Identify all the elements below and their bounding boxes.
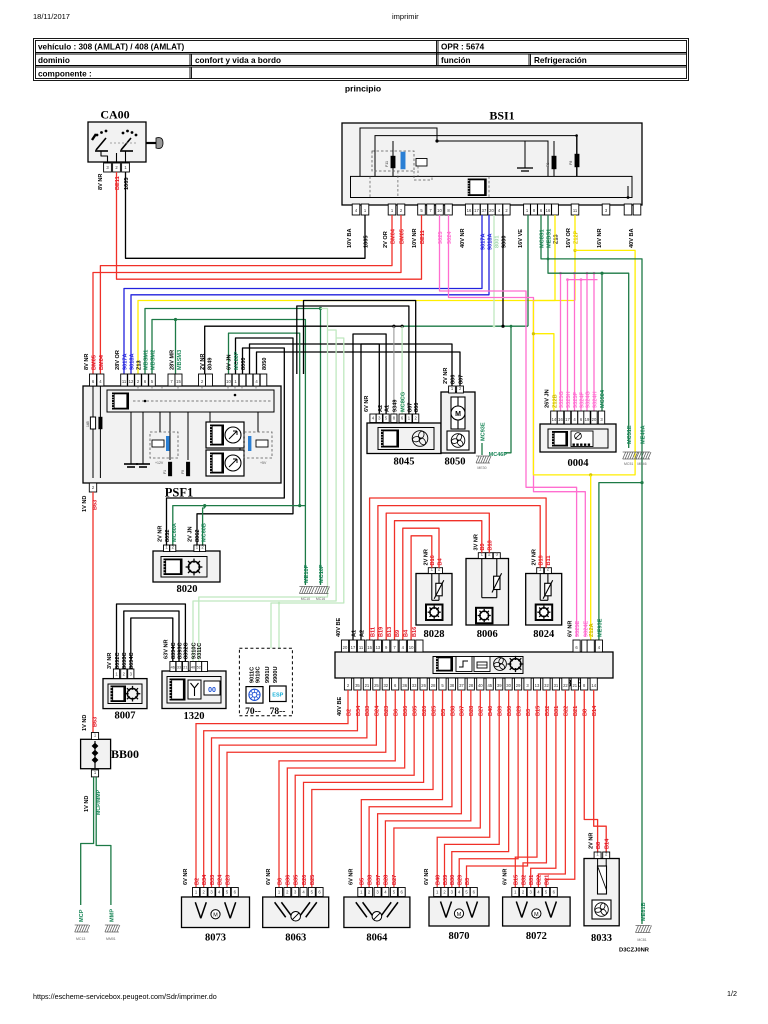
svg-text:8394C: 8394C bbox=[171, 643, 177, 659]
8064 symbol bbox=[356, 902, 398, 917]
wire 8020 green pair to MBSM2 net bbox=[173, 506, 306, 545]
8033 pins bbox=[594, 852, 601, 859]
8006 gear box bbox=[476, 608, 493, 624]
BSI1 internal dashed links bbox=[370, 166, 489, 198]
svg-text:ME10P: ME10P bbox=[304, 564, 310, 583]
wire B8 red to 8033 bbox=[584, 690, 597, 852]
svg-text:6V NR: 6V NR bbox=[266, 869, 272, 885]
svg-text:función: función bbox=[441, 56, 471, 65]
wire BM05 red BSI1 to PSF1 bbox=[93, 215, 401, 374]
svg-text:componente :: componente : bbox=[38, 70, 92, 79]
wire MC8S1 green BSI1 right main run to ME81B bbox=[541, 215, 642, 924]
component 8007 box bbox=[103, 679, 147, 709]
BSI1 internal fuse F2 bbox=[552, 156, 556, 169]
svg-text:B28: B28 bbox=[469, 706, 475, 716]
svg-text:MC46P: MC46P bbox=[489, 452, 508, 458]
svg-text:20: 20 bbox=[343, 645, 348, 650]
svg-text:31: 31 bbox=[554, 683, 559, 688]
component 8045 box bbox=[367, 423, 441, 454]
svg-text:B35: B35 bbox=[412, 706, 418, 716]
component CA00 ignition switch box bbox=[88, 122, 146, 162]
svg-text:10V NR: 10V NR bbox=[412, 228, 418, 248]
8064 pins bbox=[358, 888, 365, 897]
1320 pins bbox=[170, 662, 176, 672]
svg-text:imprimir: imprimir bbox=[392, 12, 419, 21]
wire B4 red 8080 to 8028 pin2 bbox=[403, 528, 439, 640]
svg-text:2V NR: 2V NR bbox=[200, 354, 206, 370]
svg-text:10: 10 bbox=[437, 208, 442, 213]
wire MBSM1 green net to MC16P ground bbox=[145, 309, 321, 586]
svg-text:B33: B33 bbox=[210, 875, 216, 885]
svg-text:15: 15 bbox=[367, 645, 372, 650]
svg-text:8020: 8020 bbox=[177, 584, 198, 595]
svg-text:40V BA: 40V BA bbox=[629, 228, 635, 248]
wire 9024 pink BSI1 down to 8080 9324E bbox=[449, 215, 586, 637]
8050 MC93E ground bbox=[481, 443, 483, 455]
component 8073 box bbox=[182, 897, 250, 928]
svg-text:32: 32 bbox=[383, 683, 388, 688]
svg-text:8692C: 8692C bbox=[115, 653, 121, 669]
svg-text:B13: B13 bbox=[387, 627, 393, 637]
svg-text:Z12A: Z12A bbox=[589, 623, 595, 637]
wire 807 black PSF1 to 8050 component bbox=[257, 352, 461, 386]
svg-text:9311C: 9311C bbox=[197, 643, 203, 659]
svg-text:B30: B30 bbox=[450, 875, 456, 885]
svg-text:40: 40 bbox=[478, 683, 483, 688]
svg-text:M: M bbox=[457, 912, 462, 918]
svg-text:806: 806 bbox=[451, 375, 457, 384]
svg-text:B39: B39 bbox=[443, 875, 449, 885]
svg-text:MBSM1: MBSM1 bbox=[144, 350, 150, 370]
wire B14 red to 8033 bbox=[594, 690, 607, 852]
svg-text:17: 17 bbox=[565, 417, 570, 422]
svg-text:B13: B13 bbox=[488, 540, 494, 550]
BB00 battery symbol bbox=[94, 741, 96, 768]
svg-text:20: 20 bbox=[489, 208, 494, 213]
8028 pins bbox=[428, 568, 435, 574]
wire loops 8007 to 1320 bbox=[117, 604, 186, 669]
svg-text:MC10: MC10 bbox=[301, 597, 310, 601]
svg-text:B30: B30 bbox=[507, 706, 513, 716]
svg-text:8006: 8006 bbox=[477, 629, 498, 640]
svg-text:16: 16 bbox=[546, 208, 551, 213]
svg-text:9901U: 9901U bbox=[265, 667, 271, 683]
svg-text:16: 16 bbox=[558, 417, 563, 422]
svg-text:22: 22 bbox=[563, 683, 568, 688]
8050 pins bbox=[449, 386, 456, 393]
wire 9017A blue BSI1 to PSF1 bbox=[124, 215, 482, 374]
svg-text:principio: principio bbox=[345, 84, 381, 94]
BSI1 internal wires bbox=[360, 128, 628, 198]
svg-text:13: 13 bbox=[376, 645, 381, 650]
8045 pins bbox=[370, 414, 376, 423]
svg-text:18/11/2017: 18/11/2017 bbox=[33, 12, 70, 21]
svg-text:B63: B63 bbox=[93, 717, 99, 727]
svg-text:B3: B3 bbox=[465, 878, 471, 885]
PSF1 left fuses bbox=[92, 386, 94, 417]
svg-text:6V NR: 6V NR bbox=[424, 869, 430, 885]
svg-text:M: M bbox=[455, 411, 461, 418]
svg-text:B16: B16 bbox=[412, 627, 418, 637]
component BB00 box bbox=[81, 739, 111, 768]
svg-text:MMP: MMP bbox=[109, 909, 115, 922]
svg-text:MC60A: MC60A bbox=[172, 523, 178, 542]
8020 pins bbox=[164, 545, 170, 552]
wire MC8CG pale link to 8045 bbox=[401, 326, 403, 414]
component 8070 box bbox=[429, 897, 489, 926]
svg-text:B35: B35 bbox=[294, 875, 300, 885]
wire Z12P yellow BSI1 big loop to 0004 and 8080 bbox=[533, 215, 635, 475]
svg-text:B63: B63 bbox=[93, 500, 99, 510]
wire MBSM2 green net to ME10P ground bbox=[152, 320, 305, 586]
PSF1 internal fuses bottom bbox=[168, 462, 172, 476]
svg-text:26: 26 bbox=[421, 683, 426, 688]
svg-text:33: 33 bbox=[177, 666, 181, 670]
wire 1065 black CA00 to BSI1 bbox=[126, 172, 366, 258]
svg-text:ME46A: ME46A bbox=[641, 425, 647, 444]
svg-text:8024: 8024 bbox=[533, 629, 555, 640]
svg-text:A2: A2 bbox=[378, 405, 384, 412]
component PSF1 box bbox=[83, 386, 281, 483]
svg-text:9349: 9349 bbox=[392, 400, 398, 412]
8050 motor symbol bbox=[451, 397, 465, 429]
wire Z12P branch to PSF1 yellow run bbox=[574, 250, 576, 300]
8063 pins bbox=[276, 888, 283, 897]
svg-text:866: 866 bbox=[414, 403, 420, 412]
svg-text:26V JN: 26V JN bbox=[545, 389, 551, 408]
wire B16 red 8080 to 8028 pin1 bbox=[411, 536, 432, 640]
svg-text:B39: B39 bbox=[498, 706, 504, 716]
svg-text:8050: 8050 bbox=[445, 457, 466, 468]
component 8064 box bbox=[344, 897, 410, 928]
component BSI1 box bbox=[342, 123, 642, 205]
svg-text:19: 19 bbox=[585, 417, 590, 422]
svg-text:B36: B36 bbox=[286, 875, 292, 885]
component 8063 box bbox=[263, 897, 329, 928]
svg-text:9900U: 9900U bbox=[273, 667, 279, 683]
yellow branch into 0004 Z12B pin bbox=[533, 334, 554, 411]
wire 8001 pale green stub from BSI1 bbox=[493, 215, 495, 326]
svg-text:MC60B: MC60B bbox=[202, 523, 208, 542]
svg-text:B6: B6 bbox=[394, 709, 400, 716]
svg-text:B22: B22 bbox=[564, 706, 570, 716]
svg-text:B6: B6 bbox=[277, 878, 283, 885]
svg-text:9010C: 9010C bbox=[256, 667, 262, 683]
svg-text:9018A: 9018A bbox=[130, 354, 136, 370]
svg-text:28: 28 bbox=[469, 683, 474, 688]
svg-text:8V NR: 8V NR bbox=[84, 354, 90, 370]
svg-text:10: 10 bbox=[226, 379, 231, 384]
svg-text:11: 11 bbox=[359, 645, 364, 650]
svg-text:B15: B15 bbox=[535, 706, 541, 716]
svg-text:8V NR: 8V NR bbox=[98, 174, 104, 190]
svg-text:F1: F1 bbox=[163, 470, 167, 474]
0004 pins bbox=[551, 411, 557, 424]
svg-text:MC16: MC16 bbox=[316, 597, 325, 601]
svg-text:32: 32 bbox=[544, 683, 549, 688]
svg-text:B16: B16 bbox=[430, 555, 436, 565]
svg-text:45: 45 bbox=[487, 683, 492, 688]
svg-text:8070: 8070 bbox=[449, 931, 470, 942]
svg-text:8045: 8045 bbox=[394, 457, 415, 468]
svg-text:52: 52 bbox=[197, 666, 201, 670]
svg-text:vehículo : 308 (AMLAT) / 408 (: vehículo : 308 (AMLAT) / 408 (AMLAT) bbox=[38, 43, 184, 52]
PSF1 transistor block 2 bbox=[206, 450, 244, 476]
svg-text:11: 11 bbox=[573, 208, 578, 213]
component 8080 box bbox=[335, 652, 613, 678]
svg-text:dominio: dominio bbox=[38, 56, 70, 65]
pink bus above 0004 bbox=[561, 272, 595, 274]
svg-text:B33: B33 bbox=[365, 706, 371, 716]
svg-text:B36: B36 bbox=[403, 706, 409, 716]
svg-text:B26: B26 bbox=[422, 706, 428, 716]
wire 867 black 8045 up-left bbox=[297, 306, 409, 414]
component 8006 box bbox=[466, 559, 509, 626]
svg-text:B5: B5 bbox=[360, 878, 366, 885]
svg-text:B19: B19 bbox=[379, 627, 385, 637]
svg-text:F11: F11 bbox=[385, 161, 389, 167]
svg-text:2V JN: 2V JN bbox=[188, 526, 194, 542]
svg-text:40: 40 bbox=[191, 666, 195, 670]
svg-text:B37: B37 bbox=[376, 875, 382, 885]
svg-text:8064: 8064 bbox=[366, 933, 388, 944]
svg-text:B24: B24 bbox=[375, 705, 381, 716]
svg-text:33: 33 bbox=[412, 683, 417, 688]
svg-text:Refrigeración: Refrigeración bbox=[534, 56, 587, 65]
svg-text:2V NR: 2V NR bbox=[589, 833, 595, 849]
svg-text:MC13: MC13 bbox=[76, 937, 85, 941]
8028 thermistor symbol bbox=[432, 574, 444, 601]
8007 pins bbox=[113, 669, 119, 679]
svg-text:B14: B14 bbox=[605, 838, 611, 849]
svg-text:B9: B9 bbox=[480, 543, 486, 550]
svg-text:CA00: CA00 bbox=[100, 108, 129, 122]
svg-text:Z13: Z13 bbox=[137, 360, 143, 370]
svg-text:F5: F5 bbox=[181, 470, 185, 474]
svg-text:B2: B2 bbox=[194, 878, 200, 885]
svg-text:9325F: 9325F bbox=[573, 392, 579, 408]
PSF1 relay dashed box right bbox=[244, 432, 272, 458]
component 8028 box bbox=[416, 574, 452, 626]
PSF1 internal top strip with IC bbox=[107, 390, 274, 412]
green branch 8080 ME93E to main green bbox=[599, 483, 642, 640]
svg-text:35: 35 bbox=[355, 683, 360, 688]
svg-text:6V NR: 6V NR bbox=[364, 396, 370, 412]
svg-text:807: 807 bbox=[459, 375, 465, 384]
svg-text:8028: 8028 bbox=[424, 629, 445, 640]
wire 9349 gray link to 8045 bbox=[393, 326, 395, 414]
svg-text:A1: A1 bbox=[351, 630, 357, 637]
svg-text:OPR : 5674: OPR : 5674 bbox=[441, 43, 485, 52]
wire 9025 pink BSI1 down to 8080 9325E bbox=[440, 215, 577, 637]
svg-text:1320: 1320 bbox=[184, 711, 205, 722]
red wire bundle 8080 to fan actuators bbox=[196, 690, 386, 887]
svg-text:11: 11 bbox=[122, 379, 127, 384]
svg-text:2V NR: 2V NR bbox=[158, 526, 164, 542]
svg-text:1V ND: 1V ND bbox=[82, 715, 88, 731]
wire 8060 black PSF1 to 8020 bbox=[197, 338, 293, 545]
pink drops to 0004 pins bbox=[560, 273, 562, 411]
svg-text:8033: 8033 bbox=[591, 933, 612, 944]
8073 symbol bbox=[195, 902, 235, 918]
svg-text:MBSM3: MBSM3 bbox=[177, 350, 183, 370]
78 ESP icon bbox=[270, 686, 287, 702]
svg-text:78--: 78-- bbox=[270, 707, 286, 717]
svg-text:MC51E: MC51E bbox=[627, 425, 633, 444]
8024 pins bbox=[537, 568, 544, 574]
svg-text:8050: 8050 bbox=[262, 358, 268, 370]
svg-text:B38: B38 bbox=[450, 706, 456, 716]
8033 resistor symbol bbox=[597, 859, 599, 867]
svg-text:B4: B4 bbox=[437, 557, 443, 565]
BSI1 internal IC bbox=[468, 179, 487, 197]
svg-text:MC80P: MC80P bbox=[234, 351, 240, 370]
svg-text:12: 12 bbox=[129, 379, 134, 384]
svg-text:8049: 8049 bbox=[208, 358, 214, 370]
svg-text:confort y vida a bordo: confort y vida a bordo bbox=[195, 56, 281, 65]
svg-text:40V BE: 40V BE bbox=[337, 696, 343, 716]
svg-text:6V NR: 6V NR bbox=[568, 621, 574, 637]
PSF1 transistor block 1 bbox=[206, 422, 244, 448]
svg-text:B40: B40 bbox=[436, 875, 442, 885]
svg-text:B22: B22 bbox=[537, 875, 543, 885]
PSF1 bottom wire B63 red to BB00 bbox=[92, 492, 94, 732]
8070 symbol bbox=[441, 902, 478, 918]
component 70-78 dashed box bbox=[239, 648, 292, 716]
svg-text:MM01: MM01 bbox=[106, 937, 116, 941]
8070 pins bbox=[434, 888, 441, 897]
svg-text:16V OR: 16V OR bbox=[566, 228, 572, 248]
svg-text:9017A: 9017A bbox=[123, 354, 129, 370]
svg-text:3V NR: 3V NR bbox=[107, 653, 113, 669]
wire 866 black 8045 up-left bbox=[304, 301, 416, 415]
PSF1 internal verticals bbox=[131, 412, 258, 464]
8020 inner icons bbox=[161, 557, 207, 578]
svg-text:B32: B32 bbox=[521, 875, 527, 885]
svg-text:B14: B14 bbox=[592, 705, 598, 716]
svg-text:Z12B: Z12B bbox=[552, 394, 558, 408]
CA00 connector pins 3 2 1 bbox=[104, 163, 112, 172]
svg-text:37: 37 bbox=[459, 683, 464, 688]
1320 display icon bbox=[204, 681, 220, 695]
svg-text:BM04: BM04 bbox=[99, 354, 105, 370]
svg-text:F8: F8 bbox=[569, 161, 573, 165]
svg-text:30: 30 bbox=[506, 683, 511, 688]
svg-text:2V NR: 2V NR bbox=[443, 368, 449, 384]
svg-text:29: 29 bbox=[516, 683, 521, 688]
svg-text:B27: B27 bbox=[392, 875, 398, 885]
svg-text:13: 13 bbox=[535, 683, 540, 688]
8072 pins bbox=[512, 888, 519, 897]
70 wheel icon bbox=[246, 687, 263, 704]
0004 inner frame bbox=[548, 429, 608, 448]
svg-text:16V NR: 16V NR bbox=[597, 228, 603, 248]
svg-text:1/2: 1/2 bbox=[727, 989, 737, 998]
wire MEBS1 green BSI1 to 0004 MC51E bbox=[548, 215, 629, 448]
svg-text:9325H: 9325H bbox=[566, 392, 572, 408]
wire 8050 black PSF1 to 8020 bbox=[167, 348, 285, 545]
svg-text:M: M bbox=[534, 912, 539, 918]
svg-text:17: 17 bbox=[351, 645, 356, 650]
svg-text:8052: 8052 bbox=[165, 530, 171, 542]
wire MBSM3 green stub to MBSM2 net bbox=[175, 320, 177, 375]
svg-text:B26: B26 bbox=[302, 875, 308, 885]
svg-text:36: 36 bbox=[402, 683, 407, 688]
svg-text:B29: B29 bbox=[458, 875, 464, 885]
8072 symbol bbox=[516, 902, 556, 918]
svg-text:https://escheme-servicebox.peu: https://escheme-servicebox.peugeot.com/S… bbox=[33, 992, 217, 1001]
svg-text:B31: B31 bbox=[554, 706, 560, 716]
BSI1 internal blue fuse bbox=[401, 152, 405, 169]
svg-text:B27: B27 bbox=[479, 706, 485, 716]
yellow junction and Z12A drop to 8080 bbox=[589, 473, 592, 476]
svg-text:B9: B9 bbox=[395, 630, 401, 637]
svg-text:39: 39 bbox=[497, 683, 502, 688]
svg-text:B38: B38 bbox=[367, 875, 373, 885]
svg-text:MC51: MC51 bbox=[624, 462, 633, 466]
BB00 green double wire down bbox=[81, 777, 94, 905]
svg-text:B28: B28 bbox=[384, 875, 390, 885]
svg-text:3V NR: 3V NR bbox=[473, 534, 479, 550]
svg-text:1V ND: 1V ND bbox=[82, 496, 88, 512]
svg-text:8072: 8072 bbox=[526, 931, 547, 942]
svg-text:6V NR: 6V NR bbox=[348, 869, 354, 885]
svg-text:MC8CG: MC8CG bbox=[401, 392, 407, 412]
green branch to 0004 pin MC904 bbox=[601, 273, 603, 411]
svg-text:D3CZJ0NR: D3CZJ0NR bbox=[619, 948, 650, 954]
svg-text:20: 20 bbox=[592, 417, 597, 422]
svg-text:MCP: MCP bbox=[79, 909, 85, 922]
svg-text:9325G: 9325G bbox=[559, 391, 565, 408]
svg-text:ESP: ESP bbox=[272, 693, 283, 699]
svg-text:28V OR: 28V OR bbox=[115, 350, 121, 370]
svg-text:8001: 8001 bbox=[495, 236, 501, 248]
svg-text:F2: F2 bbox=[546, 163, 550, 167]
wire Z13 yellow BSI1 to PSF1 bbox=[138, 215, 555, 374]
svg-text:ME30: ME30 bbox=[477, 466, 486, 470]
svg-text:B23: B23 bbox=[384, 706, 390, 716]
svg-text:ME81B: ME81B bbox=[641, 902, 647, 921]
svg-text:B25: B25 bbox=[310, 875, 316, 885]
svg-text:B34: B34 bbox=[202, 874, 208, 885]
svg-text:6V NR: 6V NR bbox=[502, 869, 508, 885]
svg-text:BSI1: BSI1 bbox=[489, 109, 514, 123]
8073 pins bbox=[193, 888, 200, 897]
svg-text:B8: B8 bbox=[596, 842, 602, 849]
svg-text:21: 21 bbox=[365, 683, 370, 688]
svg-text:6V JN: 6V JN bbox=[227, 354, 233, 370]
8006 thermistor symbol bbox=[482, 559, 502, 598]
svg-text:B25: B25 bbox=[431, 706, 437, 716]
svg-text:9324G: 9324G bbox=[586, 391, 592, 408]
BSI1 internal bottom bus box bbox=[351, 176, 633, 197]
svg-text:70--: 70-- bbox=[245, 707, 261, 717]
BSI1 internal fuse F8 bbox=[575, 154, 579, 167]
svg-text:28: 28 bbox=[431, 683, 436, 688]
svg-text:2V NR: 2V NR bbox=[423, 549, 429, 565]
svg-text:17: 17 bbox=[474, 208, 479, 213]
svg-text:MCP/MMP: MCP/MMP bbox=[96, 789, 102, 815]
component 8072 box bbox=[503, 897, 570, 926]
svg-text:10: 10 bbox=[409, 645, 414, 650]
svg-text:M: M bbox=[213, 913, 218, 919]
wire BE11 red CA00 to BSI1 bbox=[117, 172, 422, 279]
component 1320 box bbox=[162, 671, 226, 709]
svg-text:A2: A2 bbox=[359, 630, 365, 637]
svg-text:14: 14 bbox=[591, 683, 596, 688]
svg-text:B11: B11 bbox=[546, 556, 552, 566]
CA00 key symbol bbox=[146, 138, 163, 149]
